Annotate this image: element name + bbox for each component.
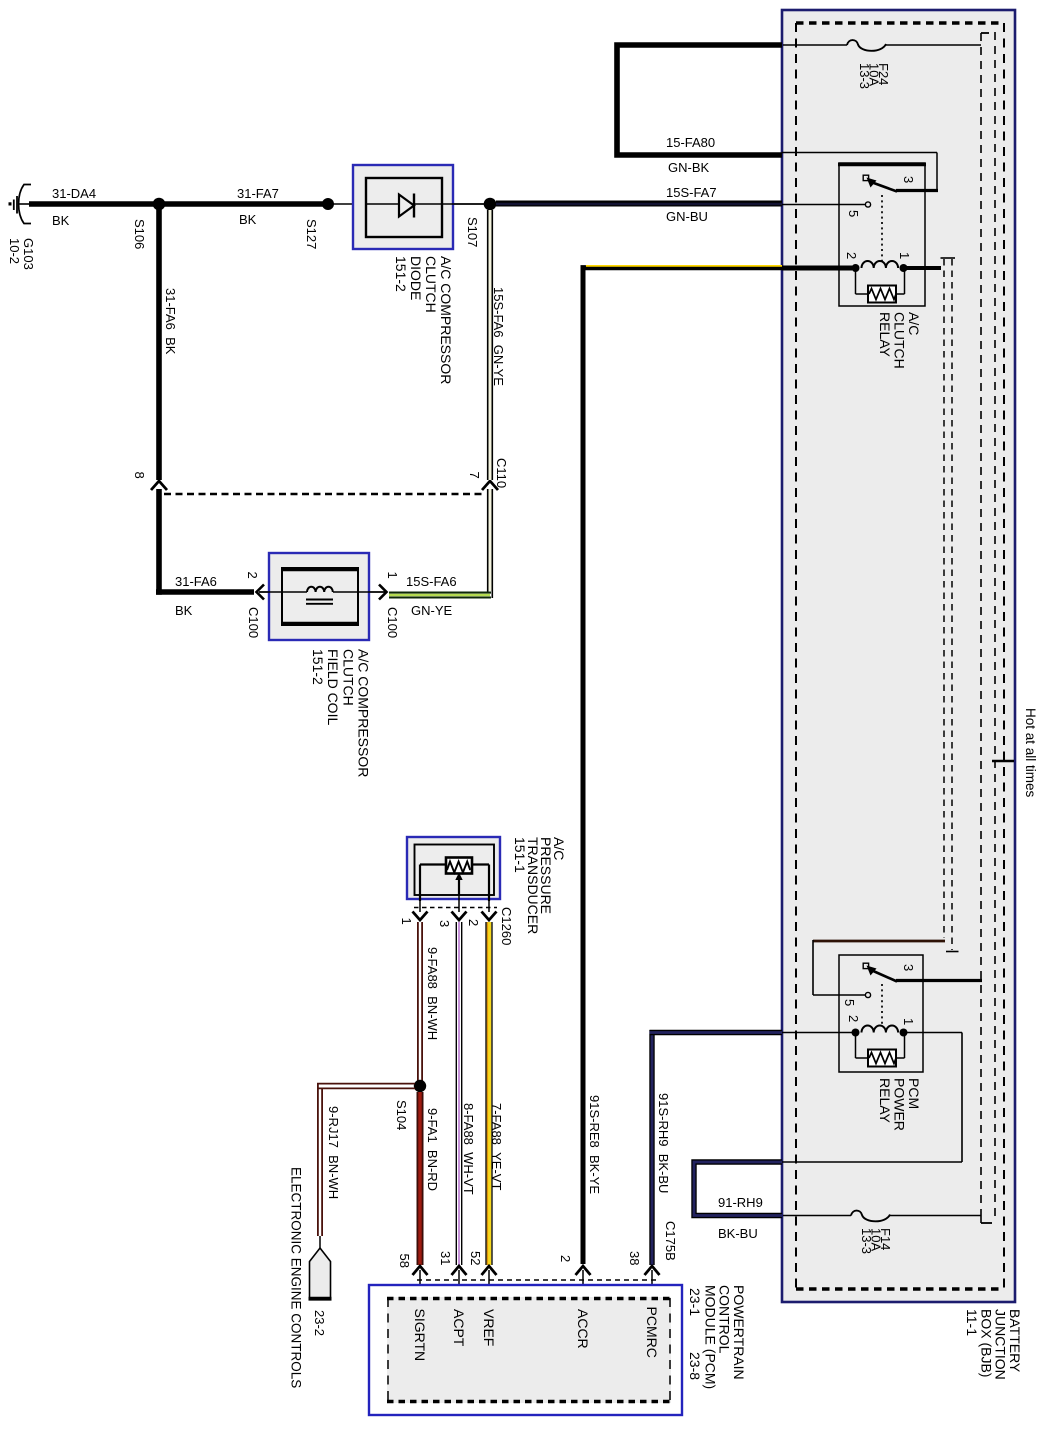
svg-text:15S-FA6 GN-YE: 15S-FA6 GN-YE	[491, 287, 506, 386]
svg-text:C110: C110	[494, 458, 509, 488]
svg-text:58: 58	[397, 1254, 412, 1268]
svg-text:1: 1	[385, 572, 400, 579]
wire 15S-FA7 GN-BU	[496, 201, 782, 207]
svg-text:7: 7	[467, 472, 482, 479]
fuse F24 10A 13-3	[783, 44, 847, 46]
svg-text:5: 5	[842, 999, 857, 1006]
svg-text:11-1: 11-1	[964, 1309, 980, 1336]
splice S104	[414, 1080, 426, 1092]
svg-text:GN-BK: GN-BK	[668, 160, 710, 175]
transducer wiper arrow	[455, 873, 462, 881]
wire 31-FA6 BK horizontal to C100	[156, 589, 254, 595]
svg-text:MODULE (PCM): MODULE (PCM)	[702, 1285, 718, 1389]
PCM power relay switch arm	[871, 970, 897, 982]
svg-text:GN-BU: GN-BU	[666, 209, 708, 224]
A/C clutch relay pin 3 feed wire	[782, 152, 937, 154]
connector C110 pin 8 arrow	[151, 481, 167, 490]
svg-text:3: 3	[901, 176, 916, 183]
svg-text:2: 2	[844, 252, 859, 259]
svg-text:23-2: 23-2	[312, 1310, 327, 1336]
diode A/C COMPRESSOR CLUTCH DIODE box	[330, 203, 488, 205]
svg-text:5: 5	[846, 210, 861, 217]
svg-text:CLUTCH: CLUTCH	[423, 256, 439, 313]
svg-text:Hot at all times: Hot at all times	[1023, 708, 1038, 798]
relay A/C CLUTCH RELAY box	[839, 163, 925, 306]
PCM power relay switch common pin (square)	[863, 963, 868, 968]
A/C clutch relay dotted actuator link	[881, 195, 883, 262]
PCM connector dashed line	[417, 1279, 658, 1281]
battery junction box (BJB) outer blue box	[782, 10, 1015, 1302]
wire 9-FA88 BN-WH (pin 1 down to S104)	[417, 922, 419, 1083]
svg-text:23-8: 23-8	[687, 1352, 703, 1380]
svg-text:9-FA1 BN-RD: 9-FA1 BN-RD	[425, 1108, 440, 1191]
svg-text:GN-YE: GN-YE	[411, 603, 453, 618]
wire 31-FA6 BK vertical from S106	[156, 207, 162, 480]
wire 9-FA1 BN-RD (S104 down to PCM 58)	[417, 1092, 424, 1265]
transducer sensor element	[446, 858, 472, 874]
PCM power relay pin 1 wire loop	[903, 1032, 962, 1034]
wire 7-FA88 YE-VT (pin 2 down to PCM 52)	[487, 922, 492, 1265]
svg-text:91S-RE8 BK-YE: 91S-RE8 BK-YE	[587, 1095, 602, 1194]
svg-text:2: 2	[558, 1255, 573, 1262]
svg-text:1: 1	[897, 252, 912, 259]
svg-text:15S-FA7: 15S-FA7	[666, 185, 717, 200]
connector C100 pin 2 arrow	[257, 585, 265, 600]
svg-text:3: 3	[437, 920, 452, 927]
svg-text:1: 1	[901, 1018, 916, 1025]
svg-text:7-FA88 YE-VT: 7-FA88 YE-VT	[489, 1103, 504, 1190]
svg-text:BK-BU: BK-BU	[718, 1226, 758, 1241]
svg-text:BK: BK	[175, 603, 193, 618]
svg-text:A/C COMPRESSOR: A/C COMPRESSOR	[356, 649, 372, 777]
svg-text:VREF: VREF	[481, 1309, 497, 1346]
BJB dashed border bottom	[796, 1287, 1004, 1290]
splice S106	[153, 198, 166, 211]
svg-text:8: 8	[132, 472, 147, 479]
svg-text:RELAY: RELAY	[877, 1078, 893, 1124]
svg-text:9-FA88 BN-WH: 9-FA88 BN-WH	[425, 947, 440, 1040]
wire 91-RH9 BK-BU (navy U loop to fuse F14)	[694, 1162, 782, 1216]
relay PCM POWER RELAY box	[839, 955, 923, 1072]
svg-text:ACCR: ACCR	[575, 1309, 591, 1349]
wire 9-RJ17 BN-WH to electronic engine controls	[317, 1083, 415, 1085]
svg-text:15S-FA6: 15S-FA6	[406, 574, 457, 589]
wire 31-DA4 BK	[29, 201, 157, 207]
svg-text:RELAY: RELAY	[877, 312, 893, 358]
PCM pin arrows and leads	[413, 1266, 428, 1275]
wire 31-FA7 BK	[161, 201, 326, 207]
svg-text:2: 2	[846, 1015, 861, 1022]
svg-text:SIGRTN: SIGRTN	[412, 1309, 428, 1362]
svg-text:31: 31	[438, 1251, 453, 1265]
svg-text:31-FA7: 31-FA7	[237, 186, 279, 201]
connector C110 pin 7 arrow	[482, 481, 498, 490]
transducer internal bracket wires	[420, 863, 446, 865]
A/C clutch relay switch common pin (square)	[863, 175, 868, 180]
svg-text:C175B: C175B	[663, 1221, 678, 1261]
svg-text:C100: C100	[385, 607, 400, 638]
connector C1260 dashed line and pin arrows	[419, 901, 421, 912]
off-page connector 23-2 (pentagon)	[319, 1236, 321, 1249]
BJB dashed border left	[795, 23, 797, 1289]
BJB internal hot-at-all-times bus (dashed)	[994, 32, 996, 1220]
field coil A/C COMPRESSOR CLUTCH FIELD COIL box	[259, 591, 385, 593]
svg-text:91-RH9: 91-RH9	[718, 1195, 763, 1210]
svg-text:1: 1	[399, 918, 414, 925]
fuse F14 10A 13-3	[783, 1215, 851, 1217]
svg-text:PCMRC: PCMRC	[644, 1307, 660, 1358]
PCM power relay dotted actuator link	[881, 984, 883, 1026]
svg-text:31-DA4: 31-DA4	[52, 186, 96, 201]
svg-text:C100: C100	[246, 607, 261, 638]
svg-text:CLUTCH: CLUTCH	[340, 649, 356, 706]
svg-text:9-RJ17 BN-WH: 9-RJ17 BN-WH	[326, 1106, 341, 1199]
svg-text:S104: S104	[394, 1100, 409, 1130]
A/C clutch relay suppression resistor R	[855, 268, 857, 294]
PCM power relay pin 5 terminal	[865, 992, 870, 997]
PCM POWERTRAIN CONTROL MODULE box	[369, 1285, 682, 1415]
svg-text:38: 38	[627, 1251, 642, 1265]
BJB internal dashed bus from A/C relay pin1 down to PCM relay pin5	[941, 257, 956, 259]
svg-text:10-2: 10-2	[7, 238, 22, 264]
svg-text:13-3: 13-3	[859, 1228, 874, 1254]
wire 8-FA88 WH-VT (pin 3 down to PCM 31)	[455, 922, 457, 1265]
connector C110 dashed line	[164, 493, 486, 496]
wire 15S-FA6 GN-YE horizontal	[389, 592, 491, 594]
svg-text:91S-RH9 BK-BU: 91S-RH9 BK-BU	[656, 1093, 671, 1193]
svg-text:15-FA80: 15-FA80	[666, 135, 715, 150]
svg-text:2: 2	[466, 919, 481, 926]
splice S107	[484, 198, 497, 211]
splice S127	[322, 198, 334, 210]
BJB internal hot bus (fuse feed, dashed)	[980, 33, 982, 1216]
ground G103	[9, 202, 12, 205]
svg-text:DIODE: DIODE	[408, 256, 424, 300]
svg-text:23-1: 23-1	[687, 1288, 703, 1316]
BJB dashed border right	[1003, 23, 1005, 1289]
svg-text:FIELD COIL: FIELD COIL	[325, 649, 341, 725]
svg-text:A/C COMPRESSOR: A/C COMPRESSOR	[438, 256, 454, 384]
PCM power relay pin 5 wire (dark)	[813, 940, 945, 943]
svg-text:13-3: 13-3	[857, 63, 872, 89]
A/C clutch relay switch arm	[871, 182, 897, 192]
svg-text:2: 2	[245, 572, 260, 579]
wire 91S-RH9 BK-BU (navy vertical to PCM 38)	[649, 1030, 654, 1265]
transducer A/C PRESSURE TRANSDUCER box	[407, 837, 500, 899]
PCM power relay pin 3 wire	[896, 979, 982, 982]
svg-text:ACPT: ACPT	[451, 1309, 467, 1347]
svg-text:151-2: 151-2	[310, 649, 326, 685]
wire 15S-FA6 GN-YE vertical (S107 to C110 to field coil)	[488, 210, 492, 480]
svg-text:BK: BK	[52, 213, 70, 228]
wire 91S-RE8 BK-YE (yellow stripe horizontal + long vertical)	[581, 265, 783, 270]
A/C clutch relay coil	[782, 266, 852, 271]
svg-text:C1260: C1260	[499, 907, 514, 945]
svg-text:BK: BK	[239, 212, 257, 227]
wire 15-FA80 GN-BK loop	[617, 45, 782, 155]
svg-text:G103: G103	[21, 238, 36, 270]
A/C clutch relay pin 5 terminal	[865, 202, 870, 207]
svg-text:31-FA6 BK: 31-FA6 BK	[163, 288, 178, 355]
svg-text:S107: S107	[465, 217, 480, 247]
svg-text:3: 3	[901, 964, 916, 971]
connector C100 pin 1 arrow	[379, 585, 387, 600]
svg-text:31-FA6: 31-FA6	[175, 574, 217, 589]
svg-text:151-1: 151-1	[512, 837, 528, 873]
svg-text:S127: S127	[304, 219, 319, 249]
svg-text:8-FA88 WH-VT: 8-FA88 WH-VT	[461, 1103, 476, 1195]
svg-text:52: 52	[468, 1251, 483, 1265]
PCM power relay coil	[782, 1032, 852, 1034]
hot at all times tick	[992, 760, 1014, 763]
svg-text:S106: S106	[132, 219, 147, 249]
BJB dashed border top	[796, 21, 1004, 24]
svg-text:ELECTRONIC ENGINE CONTROLS: ELECTRONIC ENGINE CONTROLS	[289, 1167, 304, 1388]
svg-text:151-2: 151-2	[393, 256, 409, 292]
PCM power relay suppression resistor R	[855, 1033, 857, 1059]
